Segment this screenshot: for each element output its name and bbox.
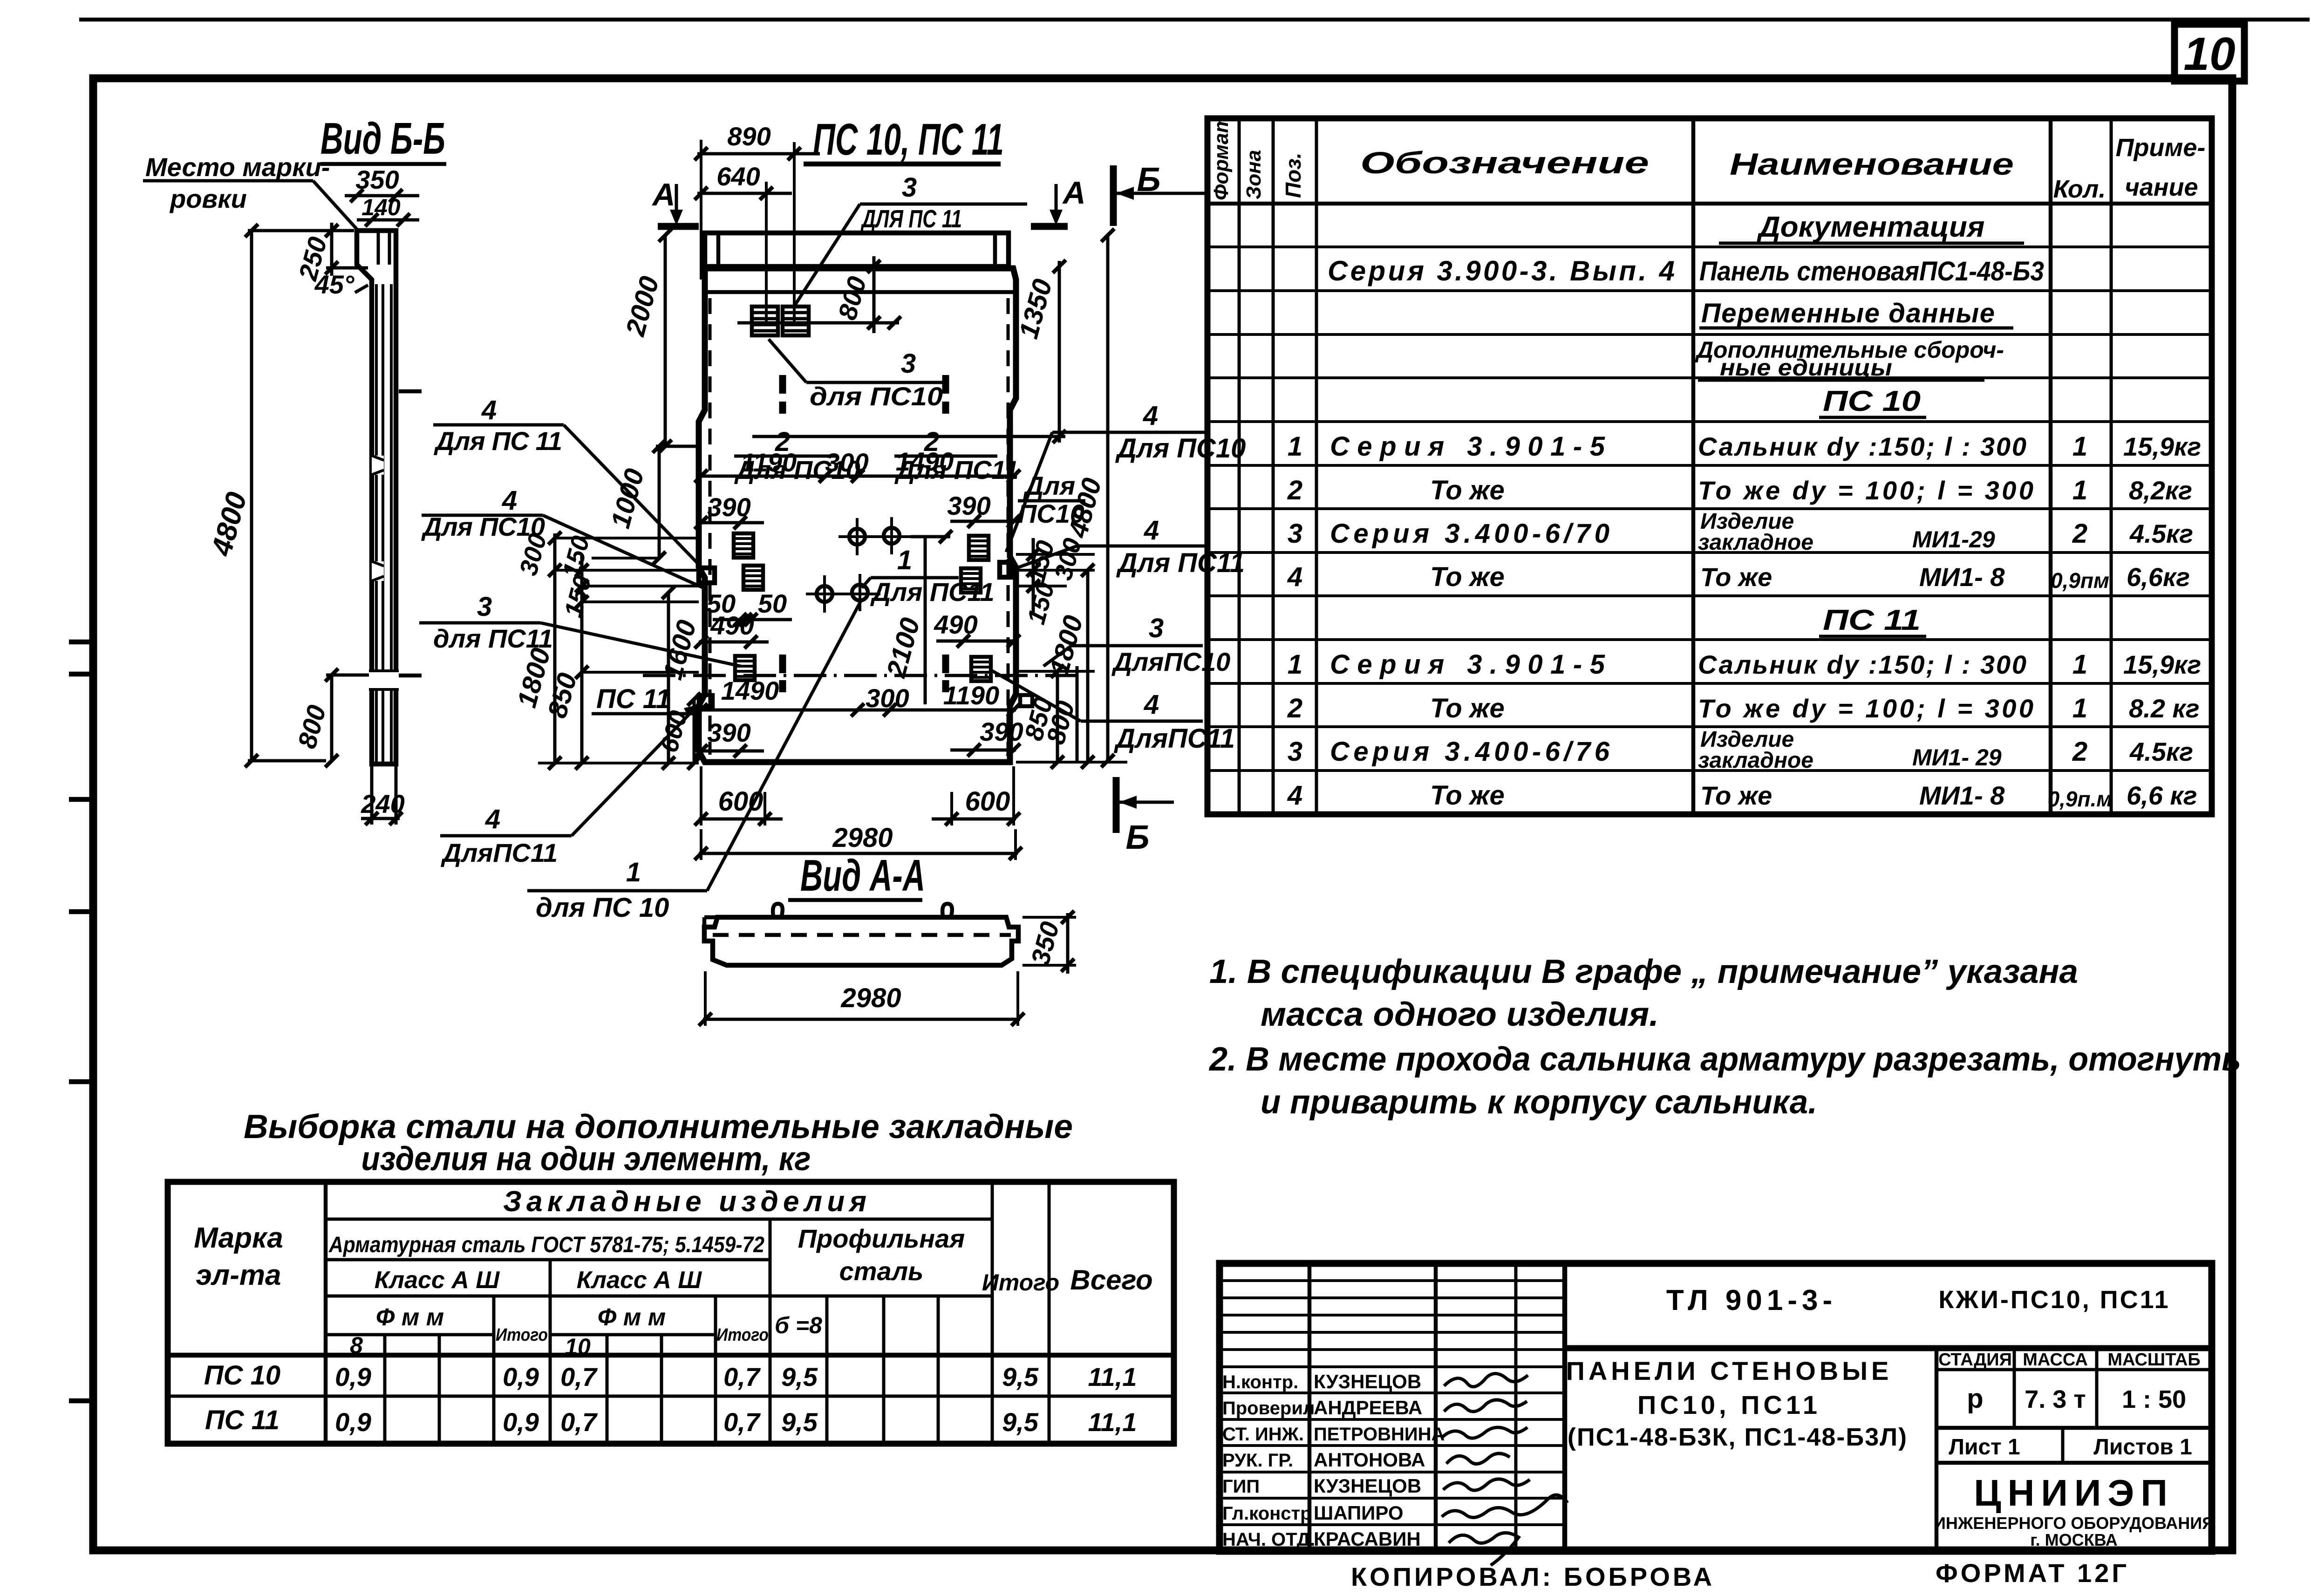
embed plate right low — [971, 657, 991, 681]
dim 600 bottom-right (5) — [1012, 766, 1015, 825]
spec row: Переменные данные (2) — [1699, 327, 2013, 330]
spec col Зона — [1272, 118, 1275, 814]
section mark A left (3) — [670, 210, 683, 225]
svg-text:эл-та: эл-та — [196, 1259, 281, 1291]
leader 4 / Для ПС10 (left mid) (4) — [543, 515, 703, 588]
signature squiggle 7 — [1449, 1533, 1519, 1565]
leader 4 / Для ПС10 (right) (2) — [1052, 431, 1208, 434]
dim 1350 rotated (4) — [752, 435, 1065, 438]
svg-text:Место марки-: Место марки- — [145, 152, 330, 182]
svg-text:КРАСАВИН: КРАСАВИН — [1314, 1528, 1421, 1550]
left outside dims: ext lines (4) — [582, 600, 699, 603]
spec row lines (13) — [1207, 769, 2212, 772]
svg-text:Н.контр.: Н.контр. — [1222, 1372, 1298, 1392]
leader 4 / ДляПС11 (right bottom) (2) — [1081, 720, 1203, 723]
steel verticals (2) — [383, 1335, 387, 1444]
svg-text:Арматурная сталь ГОСТ 5781-75;: Арматурная сталь ГОСТ 5781-75; 5.1459-72 — [328, 1233, 764, 1257]
dim 350 rotated (right of bar) (5) — [1023, 964, 1076, 967]
svg-text:11,1: 11,1 — [1088, 1407, 1137, 1437]
dim 600 bottom-right (2) — [932, 818, 1016, 821]
svg-text:2: 2 — [1287, 475, 1302, 505]
dim 1600 rotated (left) (3) — [662, 586, 675, 599]
section notch 2 — [372, 561, 384, 581]
svg-text:0,7: 0,7 — [723, 1407, 761, 1437]
spec row lines (2) — [1207, 289, 2212, 292]
dim 600 bottom-left (3) — [695, 812, 708, 825]
leader label Место маркировки (3) — [143, 179, 313, 183]
svg-text:ГИП: ГИП — [1222, 1476, 1260, 1497]
spec row lines (8) — [1207, 551, 2212, 554]
dim 2980 (bottom of main view) (2) — [699, 852, 1018, 855]
dim 850 rotated (left) (3) — [582, 671, 699, 674]
dims right side rotated: 150 150 300 (4) — [1032, 538, 1035, 615]
svg-text:ные единицы: ные единицы — [1720, 355, 1892, 381]
title block vertical: names col — [1434, 1263, 1438, 1551]
left outside dims: ext lines — [555, 537, 699, 539]
svg-text:Профильная: Профильная — [798, 1224, 965, 1253]
holes upper pair (3) — [839, 535, 911, 538]
svg-text:8,2кг: 8,2кг — [2129, 476, 2192, 505]
section mark B bottom (2) — [1113, 777, 1120, 833]
svg-text:Всего: Всего — [1070, 1264, 1152, 1296]
dims right side rotated: 150 150 300 (8) — [1016, 585, 1067, 587]
leader 2 / Для ПС11 (2) — [894, 455, 997, 458]
section 2-2 cut marks lower — [779, 655, 786, 673]
svg-text:1490: 1490 — [896, 447, 954, 476]
leader 1 / для ПС 10 (bottom) (4) — [707, 601, 861, 891]
svg-text:Класс А Ш: Класс А Ш — [375, 1267, 500, 1294]
dim 800 (rotated) (2) — [330, 675, 334, 761]
dim 800 (rotated) (4) — [325, 668, 338, 682]
holes lower pair (3) — [806, 593, 880, 595]
svg-text:Сальник dy :150; l : 300: Сальник dy :150; l : 300 — [1698, 432, 2026, 461]
section 2-2 cut marks upper (3) — [942, 375, 949, 394]
svg-text:закладное: закладное — [1698, 530, 1813, 555]
svg-text:0,7: 0,7 — [560, 1407, 598, 1437]
lifting loop right — [942, 904, 952, 916]
holes lower pair — [817, 586, 832, 602]
leader 3 / для ПС10 (2) — [806, 381, 944, 384]
left margin fold ticks (6) — [69, 1398, 95, 1404]
spec row lines (9) — [1207, 594, 2212, 597]
bar end notch left — [704, 917, 720, 927]
signature squiggle 5 — [1443, 1479, 1530, 1490]
svg-text:3: 3 — [1288, 737, 1302, 767]
dim 4800 (rotated) (3) — [248, 229, 354, 232]
signature squiggle 6 — [1442, 1495, 1568, 1517]
side tick on stem — [399, 389, 422, 394]
spec row lines (10) — [1207, 638, 2212, 641]
steel verticals (8) — [714, 1296, 717, 1444]
signature squiggle 2 — [1444, 1400, 1527, 1412]
svg-text:4: 4 — [502, 485, 517, 516]
svg-text:То же: То же — [1430, 562, 1505, 592]
bar outline (panel top view) — [704, 917, 1018, 965]
title block signature row lines (2) — [1220, 1418, 1565, 1421]
leader 3 / для ПС10 (4) — [769, 339, 806, 382]
leader label Место маркировки (4) — [313, 181, 358, 230]
dim 140 (2) — [357, 218, 419, 222]
svg-text:1: 1 — [626, 857, 641, 887]
dim 490 left (2) — [699, 641, 769, 644]
dim 350 rotated (right of bar) (2) — [1066, 913, 1070, 974]
svg-text:0,9п.м: 0,9п.м — [2048, 787, 2113, 811]
section 2-2 cut marks upper (2) — [779, 402, 786, 414]
side tick on stem (2) — [399, 674, 422, 678]
steel horizontals (7) — [168, 1353, 1174, 1358]
title block thin rows top-left (3) — [1220, 1314, 1565, 1316]
svg-text:закладное: закладное — [1698, 748, 1813, 773]
dim 600 rotated small (left) (2) — [693, 699, 696, 763]
svg-text:6,6кг: 6,6кг — [2127, 562, 2190, 592]
title block frame — [1220, 1263, 2212, 1551]
section inner lines (3) — [375, 284, 378, 762]
edge square right — [1000, 562, 1012, 577]
svg-text:То же: То же — [1430, 780, 1505, 811]
title block thin rows top-left (4) — [1220, 1331, 1565, 1334]
left margin fold ticks (4) — [69, 909, 95, 914]
spec row: ПС 11 (2) — [1819, 635, 1926, 638]
section mark A left (2) — [675, 184, 678, 220]
svg-text:А: А — [651, 177, 675, 212]
svg-text:То же: То же — [1430, 693, 1505, 723]
svg-text:сталь: сталь — [839, 1256, 924, 1286]
steel verticals (12) — [937, 1296, 940, 1444]
svg-text:2980: 2980 — [832, 823, 893, 853]
svg-text:Сальник dy :150; l : 300: Сальник dy :150; l : 300 — [1698, 650, 2026, 679]
svg-text:ПС 11: ПС 11 — [596, 684, 671, 714]
svg-text:ПС10, ПС11: ПС10, ПС11 — [1637, 1390, 1821, 1419]
svg-text:Серия 3.901-5: Серия 3.901-5 — [1330, 431, 1605, 462]
dims right side rotated: 150 150 300 (7) — [1016, 569, 1095, 572]
dim 140 (3) — [365, 213, 378, 226]
spec col Обозначение — [1691, 118, 1696, 814]
edge square left — [699, 568, 715, 583]
lifting loop left — [773, 904, 783, 916]
leader 2 / Для ПС10 (2) — [734, 455, 837, 458]
panel top cap (2) — [716, 233, 721, 266]
steel table frame — [168, 1182, 1174, 1444]
steel verticals (5) — [549, 1260, 552, 1444]
view title Вид Б-Б (2) — [320, 162, 446, 166]
stadia grid (3) — [2095, 1348, 2099, 1428]
svg-text:ИНЖЕНЕРНОГО ОБОРУДОВАНИЯ: ИНЖЕНЕРНОГО ОБОРУДОВАНИЯ — [1934, 1514, 2214, 1533]
svg-text:9,5: 9,5 — [781, 1362, 818, 1391]
section 2-2 cut marks upper — [779, 375, 786, 394]
dim 1350 rotated (3) — [1053, 260, 1066, 273]
svg-text:КЖИ-ПС10, ПС11: КЖИ-ПС10, ПС11 — [1938, 1286, 2170, 1314]
panel top cap (3) — [993, 233, 997, 266]
steel horizontals (5) — [326, 1333, 494, 1337]
dim 4800 (rotated) (2) — [250, 231, 253, 761]
dim 600 bottom-left (2) — [699, 818, 783, 821]
dim 600 bottom-left (4) — [700, 766, 702, 825]
leader Для ПС10 (two lines, at panel right) (3) — [1018, 499, 1085, 503]
dim 390 bottom-left (3) — [695, 744, 708, 757]
dim 390 bottom-right (3) — [968, 743, 981, 757]
leader 4 / Для ПС11 (right) (2) — [1077, 545, 1207, 548]
svg-text:2: 2 — [2072, 737, 2087, 767]
embed plates item3 pair (top) — [752, 307, 778, 335]
svg-text:ТЛ 901-3-: ТЛ 901-3- — [1666, 1284, 1837, 1316]
svg-text:ЦНИИЭП: ЦНИИЭП — [1974, 1472, 2174, 1514]
leader 4 / Для ПС10 (right) (4) — [1006, 432, 1052, 552]
leader 3 / для ПС11 (left) (2) — [419, 621, 540, 625]
panel top strip inner line — [702, 290, 1015, 294]
svg-text:Для ПС11: Для ПС11 — [870, 577, 995, 607]
steel verticals (3) — [438, 1335, 441, 1444]
svg-text:ШАПИРО: ШАПИРО — [1314, 1502, 1404, 1524]
dim 250 (rotated) (2) — [330, 223, 334, 276]
steel verticals (4) — [492, 1296, 496, 1444]
dim 490 left (3) — [695, 635, 708, 648]
leader 1 / для ПС 10 (bottom) (2) — [527, 889, 707, 893]
svg-text:МИ1- 8: МИ1- 8 — [1919, 781, 2005, 810]
section 2-2 cut marks lower (2) — [779, 680, 786, 692]
section mark A right (2) — [1055, 184, 1058, 220]
dim 600 bottom-right (4) — [950, 792, 953, 825]
steel horizontals (3) — [770, 1295, 992, 1298]
svg-text:ПС 10: ПС 10 — [204, 1360, 280, 1391]
svg-text:ПС 10, ПС 11: ПС 10, ПС 11 — [813, 115, 1004, 164]
leader 3 / для ПС11 (left) (4) — [540, 623, 741, 666]
dim 800 rotated (top plates) (2) — [873, 256, 876, 333]
svg-text:для ПС11: для ПС11 — [433, 624, 553, 653]
section notch 3 (cross gap) — [369, 671, 399, 689]
holes upper pair (2) — [884, 528, 900, 544]
leader 3 / ДляПС10 (right) (2) — [1071, 644, 1203, 648]
dim 1800 rotated (right) (2) — [1086, 570, 1090, 762]
dim 600 bottom-right (3) — [945, 812, 958, 825]
embed plate left low — [735, 656, 755, 680]
spec row lines (5) — [1207, 420, 2212, 423]
svg-text:6,6 кг: 6,6 кг — [2127, 781, 2197, 810]
steel horizontals (2) — [326, 1258, 770, 1262]
steel verticals (14) — [1048, 1182, 1051, 1444]
svg-text:Класс А Ш: Класс А Ш — [577, 1267, 702, 1294]
spec row lines (12) — [1207, 725, 2212, 728]
dim 2100 rotated (center) (2) — [924, 537, 927, 704]
leader 4 / ДляПС11 (right bottom) (4) — [992, 671, 1081, 721]
svg-text:ПС 10: ПС 10 — [1823, 385, 1921, 417]
title block signature row lines (4) — [1220, 1471, 1565, 1473]
leader 4 / ДляПС11 (bottom left) (2) — [440, 834, 572, 838]
svg-text:А: А — [1062, 175, 1085, 211]
leader 4 / Для ПС 11 (left top) (2) — [433, 423, 564, 427]
svg-text:Гл.констр: Гл.констр — [1222, 1503, 1312, 1524]
left margin fold ticks (5) — [69, 1079, 95, 1084]
svg-text:0,9пм: 0,9пм — [2051, 568, 2109, 593]
view title Вид А-А (2) — [788, 898, 922, 902]
section inner lines (2) — [388, 231, 391, 265]
svg-text:1 : 50: 1 : 50 — [2122, 1385, 2186, 1413]
svg-text:Ф м м: Ф м м — [376, 1304, 444, 1331]
svg-text:4: 4 — [485, 804, 500, 834]
svg-text:чание: чание — [2125, 173, 2198, 201]
title block vertical: roles col — [1308, 1263, 1312, 1551]
svg-text:(ПС1-48-Б3К, ПС1-48-Б3Л): (ПС1-48-Б3К, ПС1-48-Б3Л) — [1568, 1423, 1908, 1451]
svg-text:б =8: б =8 — [775, 1312, 822, 1338]
title block thin rows top-left (5) — [1220, 1348, 1565, 1351]
svg-text:640: 640 — [716, 162, 760, 191]
svg-text:9,5: 9,5 — [1002, 1407, 1039, 1437]
title block thin rows top-left (6) — [1220, 1365, 1565, 1368]
dim 2980 (bottom of main view) (3) — [695, 847, 708, 860]
svg-text:Выборка стали на дополнител: Выборка стали на дополнительные закладны… — [244, 1108, 1073, 1146]
svg-text:15,9кг: 15,9кг — [2123, 650, 2201, 679]
stadia grid (4) — [1936, 1368, 2212, 1371]
svg-text:Панель стеноваяПС1-48-Б3: Панель стеноваяПС1-48-Б3 — [1699, 256, 2044, 286]
spec table frame — [1207, 118, 2212, 814]
svg-text:490: 490 — [934, 610, 977, 639]
hidden dashed line right — [1007, 298, 1010, 755]
svg-text:1: 1 — [2072, 475, 2087, 505]
svg-text:МИ1- 8: МИ1- 8 — [1919, 562, 2005, 592]
dim 350 rotated (right of bar) (4) — [1023, 916, 1076, 919]
sheet row — [2061, 1428, 2065, 1463]
steel verticals (13) — [991, 1182, 994, 1444]
dim 250 (rotated) (5) — [325, 224, 338, 237]
svg-text:Вид А-А: Вид А-А — [800, 851, 925, 900]
holes upper pair (7) — [939, 530, 952, 543]
holes lower pair (5) — [859, 574, 861, 611]
svg-text:0,7: 0,7 — [723, 1362, 761, 1391]
dim 2980 (view A-A) (3) — [699, 1013, 712, 1026]
svg-text:4.5кг: 4.5кг — [2129, 519, 2193, 548]
svg-text:Для ПС 11: Для ПС 11 — [434, 426, 562, 456]
stadia values (4) — [1936, 1426, 2212, 1430]
title block signature row lines — [1220, 1391, 1565, 1394]
section 2-2 cut marks lower (4) — [942, 680, 949, 692]
svg-text:КУЗНЕЦОВ: КУЗНЕЦОВ — [1314, 1371, 1421, 1392]
section 2-2 cut marks lower (3) — [942, 655, 949, 673]
leader ПС 11 (3) — [684, 704, 700, 717]
leader 3 / ДЛЯ ПС 11 (top) (2) — [860, 203, 1027, 206]
holes lower pair (4) — [823, 575, 826, 613]
holes upper pair — [849, 529, 865, 545]
svg-text:г. МОСКВА: г. МОСКВА — [2030, 1530, 2118, 1549]
svg-text:1: 1 — [2072, 431, 2087, 462]
svg-text:РУК. ГР.: РУК. ГР. — [1222, 1450, 1293, 1471]
svg-text:0,7: 0,7 — [560, 1362, 598, 1391]
svg-text:р: р — [1967, 1384, 1983, 1414]
svg-text:1490: 1490 — [721, 676, 779, 705]
svg-text:9,5: 9,5 — [1002, 1362, 1039, 1391]
section mark B bottom (4) — [1119, 796, 1137, 809]
svg-text:Вид Б-Б: Вид Б-Б — [320, 114, 445, 164]
dims 850 900 rotated (right) (6) — [1016, 670, 1095, 673]
embed plate right mid — [961, 568, 981, 593]
svg-text:4: 4 — [1144, 515, 1159, 546]
svg-text:КУЗНЕЦОВ: КУЗНЕЦОВ — [1314, 1475, 1421, 1497]
svg-text:4: 4 — [1287, 562, 1302, 592]
left outside dims: ext lines (3) — [582, 585, 699, 587]
hidden dashed line left — [709, 298, 712, 755]
svg-text:390: 390 — [707, 718, 750, 747]
svg-text:МАСШТАБ: МАСШТАБ — [2107, 1350, 2200, 1370]
svg-text:Поз.: Поз. — [1281, 153, 1305, 198]
dim 240 (bottom) (2) — [361, 817, 400, 820]
left dim line B (150/150/850) (2) — [575, 564, 588, 577]
svg-text:3: 3 — [1149, 613, 1164, 643]
svg-text:4: 4 — [1287, 780, 1302, 811]
svg-text:масса одного изделия.: масса одного изделия. — [1261, 996, 1659, 1033]
svg-text:То же: То же — [1700, 562, 1772, 592]
dim 4800 (rotated) (5) — [245, 224, 258, 237]
dim 350 rotated (right of bar) (3) — [1061, 911, 1074, 924]
svg-text:Зона: Зона — [1242, 150, 1265, 199]
leader 1 / Для ПС11 (2) — [871, 576, 959, 580]
spec row lines (7) — [1207, 507, 2212, 510]
dim row 1190 300 1490 (5) — [695, 470, 708, 483]
spec col Наименование — [2049, 118, 2053, 814]
svg-text:МИ1- 29: МИ1- 29 — [1912, 744, 2002, 771]
corner squares bottom — [699, 695, 713, 707]
section mark B bottom (3) — [1119, 801, 1174, 804]
section shape: top block — [357, 231, 396, 764]
steel verticals (10) — [825, 1296, 829, 1444]
left outside dims: ext lines (2) — [555, 569, 699, 572]
leader ПС 11 (4) — [693, 704, 700, 714]
steel verticals — [324, 1182, 328, 1444]
svg-text:15,9кг: 15,9кг — [2123, 432, 2201, 461]
spec row: Документация (2) — [1719, 242, 2024, 245]
leader 3 / ДЛЯ ПС 11 (top) (4) — [793, 204, 860, 308]
signature squiggle 3 — [1442, 1427, 1527, 1438]
svg-text:1190: 1190 — [741, 448, 797, 477]
holes upper pair (5) — [890, 517, 893, 554]
section mark B top (4) — [1116, 187, 1134, 200]
spec row lines (3) — [1207, 333, 2212, 336]
bar inner bottom line — [727, 964, 1002, 967]
svg-text:600: 600 — [965, 786, 1010, 817]
dim 240 (bottom) (4) — [395, 766, 398, 825]
spec row: Дополнительные сборочные единицы (3) — [1698, 379, 1984, 382]
title block signature row lines (3) — [1220, 1444, 1565, 1447]
dim 350 (top width of section) (2) — [345, 194, 419, 198]
svg-text:СТАДИЯ: СТАДИЯ — [1938, 1350, 2012, 1370]
section inner lines (5) — [390, 284, 393, 762]
svg-text:1: 1 — [2072, 649, 2087, 680]
section mark A left (4) — [658, 223, 699, 230]
dim 250 (rotated) (3) — [326, 229, 354, 232]
view title ПС10, ПС11 (2) — [804, 162, 1001, 167]
section mark A right (4) — [1031, 223, 1068, 230]
svg-text:Итого: Итого — [982, 1269, 1059, 1296]
dim 640 (2) — [697, 192, 792, 195]
svg-text:ПЕТРОВНИНА: ПЕТРОВНИНА — [1314, 1424, 1445, 1445]
dims 850 900 rotated (right) (5) — [1076, 666, 1079, 762]
left margin fold ticks — [69, 640, 95, 645]
dim 390 top-left (3) — [695, 516, 708, 529]
left margin fold ticks (3) — [69, 797, 95, 802]
dim 4800 rotated (right) (3) — [1101, 229, 1114, 242]
dim 800 rotated (top plates) (3) — [867, 260, 880, 273]
dim row 1490 300 1190 (lower) (5) — [695, 703, 708, 716]
dim 240 (bottom) (3) — [370, 766, 374, 825]
dims 850 900 rotated (right) (4) — [1051, 665, 1064, 678]
svg-text:10: 10 — [2183, 28, 2235, 80]
embed plate left mid — [743, 566, 763, 590]
svg-text:НАЧ. ОТД.: НАЧ. ОТД. — [1222, 1529, 1315, 1550]
spec row lines (4) — [1207, 376, 2212, 379]
svg-text:Марка: Марка — [194, 1222, 283, 1254]
section mark B top (2) — [1110, 165, 1117, 226]
svg-text:1. В спецификации В графе „ п: 1. В спецификации В графе „ примечание” … — [1209, 953, 2078, 990]
svg-text:3: 3 — [1288, 518, 1302, 549]
signature squiggle 1 — [1444, 1373, 1528, 1386]
svg-text:Приме-: Приме- — [2116, 134, 2206, 162]
